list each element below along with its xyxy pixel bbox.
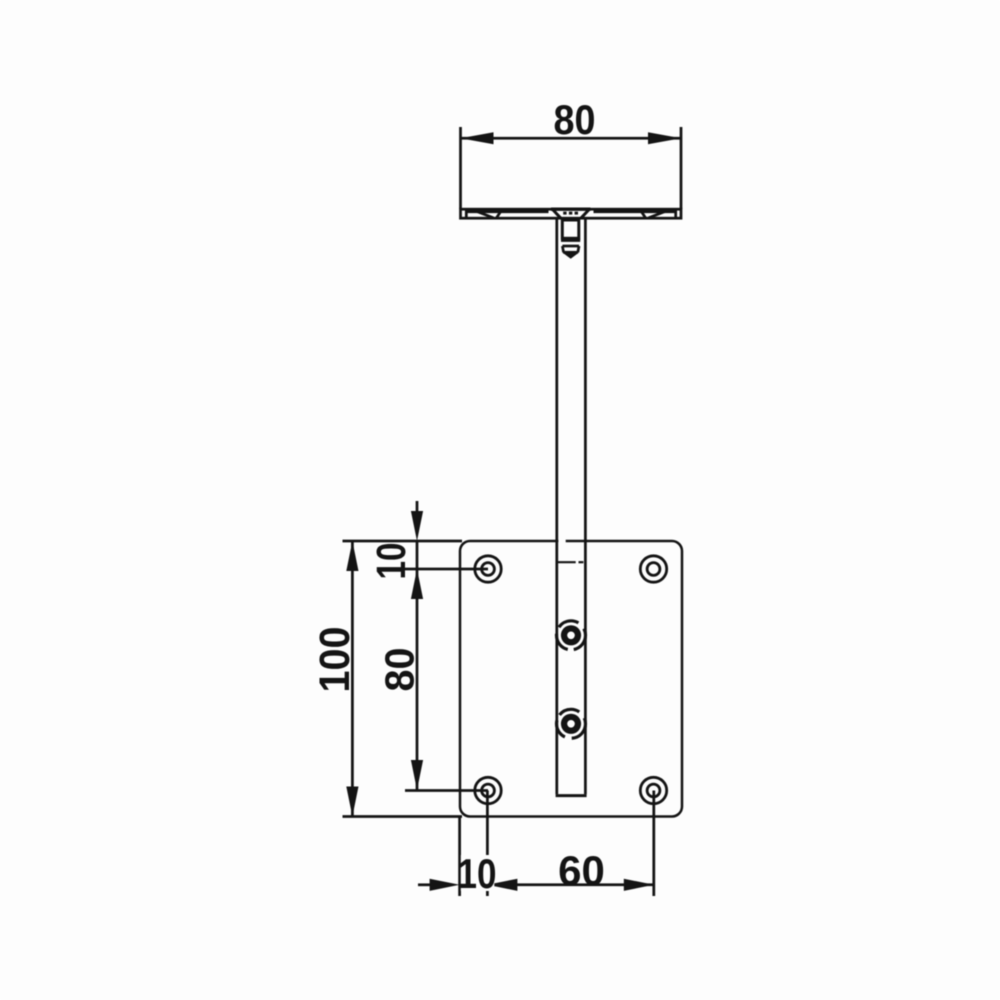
hole bottom-left outer [475,777,501,803]
dimension 60: right arrowhead [624,879,654,891]
dimension 10 upper: arrow above plate top [416,501,419,513]
bottom extension line from plate left edge [458,817,461,897]
bolt body below top plate [562,220,579,238]
top plate right end tick [674,209,677,218]
dimension 80 vertical: bottom arrowhead [411,760,423,790]
dimension 80 top: extension line right [680,127,683,209]
hole bottom-right inner [647,784,660,797]
clamp screw lower: outer broken ring [557,709,586,738]
bottom extension line from bottom-right hole [652,791,655,897]
extension line through bottom-left hole [405,789,488,792]
top plate left countersink notch [478,212,494,218]
svg-text:60: 60 [558,847,605,894]
hole top-left outer [475,556,501,582]
dimension 80 vertical: top arrowhead [411,569,423,599]
hole top-right outer [640,556,666,582]
dimension 60: left arrowhead [487,879,517,891]
screw head drive dots [563,212,566,215]
svg-text:80: 80 [377,648,423,692]
wall plate outline [460,541,682,817]
dimension 80 vertical: dimension line [416,569,419,790]
tube end line inside slot [558,561,576,563]
dimension 100: dimension line [351,541,354,817]
clamp screw upper: body [561,625,581,645]
dimension 60: dimension line [487,883,653,886]
screw head (countersunk) in top plate [551,207,591,210]
bolt flange [561,239,580,242]
clamp screw lower: body [561,714,581,734]
label 10 bottom (with masking background) [461,855,495,891]
svg-text:100: 100 [312,627,359,693]
top plate left end tick [465,209,468,218]
hanger tube / slot right edge [584,219,587,794]
svg-text:80: 80 [554,96,596,143]
gap in plate top edge where tube passes [558,539,565,543]
bolt tip [564,253,578,258]
dimension 100: bottom extension line [343,815,463,818]
slot bottom cap [556,794,587,797]
bottom extension line from bottom-left hole [486,791,489,897]
extension line through top-left hole [405,568,488,571]
svg-text:10: 10 [368,543,414,580]
dimension 100: bottom arrowhead [346,787,358,817]
dimension 80 top: right arrowhead [648,132,681,144]
dimension 100: top arrowhead [346,541,358,571]
bolt lower collar [562,245,579,248]
dimension 80 top: dimension line [461,137,682,140]
dimension 10 upper: dimension line stub [416,541,419,569]
hole bottom-right outer [640,777,666,803]
hole top-right inner [647,563,660,576]
dimension 80 top: left arrowhead [461,132,494,144]
hanger tube / slot left edge [555,219,558,794]
hole top-left inner [482,563,495,576]
dimension 80 top: extension line left [459,127,462,209]
clamp screw upper: outer broken ring [557,621,586,650]
svg-text:10: 10 [458,850,497,897]
hole bottom-left inner [482,784,495,797]
dimension 10 bottom: tail and outside arrowhead [418,883,431,886]
dimension 100: top extension line [343,540,463,543]
top plate band outline [461,209,682,218]
top plate right countersink notch [642,212,646,218]
top plate inner step line [466,210,548,213]
